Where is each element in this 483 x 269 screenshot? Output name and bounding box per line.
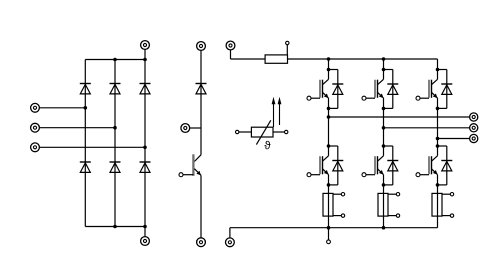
wire emitter diagonal+arrow of Q4 xyxy=(378,169,384,175)
terminal rectifier DC- xyxy=(141,237,150,246)
node junction top of Q1 xyxy=(327,68,331,72)
wire gate lead of Q6 xyxy=(420,174,429,176)
wire thermistor right lead xyxy=(273,131,285,133)
wire kelvin tap lower R3 xyxy=(442,215,450,217)
wire phase U output xyxy=(329,116,470,118)
wire diode-branch vertical of D12 xyxy=(337,146,339,185)
wire diode-branch vertical of D16 xyxy=(446,146,448,185)
wire rail corner drop col3 xyxy=(437,59,439,70)
wire DC+ to resistor xyxy=(231,58,266,60)
wire collector diagonal of Q1 xyxy=(323,79,329,84)
node junction top of Q6 xyxy=(436,144,440,148)
wire diode-branch top of D15 xyxy=(438,69,447,71)
node junction bottom rail leg2 xyxy=(113,225,117,229)
terminal rectifier DC+ xyxy=(141,41,150,50)
wire rectifier leg 3 xyxy=(144,60,146,227)
wire kelvin tap lower R2 xyxy=(388,215,396,217)
node junction phase V tap xyxy=(382,126,386,130)
wire col3 mid link xyxy=(437,108,439,146)
wire kelvin tap upper R3 xyxy=(442,193,450,195)
wire collector diagonal of Q6 xyxy=(432,156,438,161)
wire emitter lead of Q6 xyxy=(437,175,439,185)
wire emitter diagonal+arrow of Q2 xyxy=(323,169,329,175)
terminal AC input 1 xyxy=(31,103,40,112)
diode D7 chopper xyxy=(196,84,207,94)
wire DC- sense stub xyxy=(328,228,330,240)
wire collector diagonal of Q4 xyxy=(378,156,384,161)
wire chopper mid tap xyxy=(190,127,201,129)
wire AC input phase 1 xyxy=(39,107,85,109)
pin gate terminal of Q4 xyxy=(362,173,366,177)
wire gate lead of Q4 xyxy=(366,174,375,176)
node junction DC- col1 xyxy=(327,226,331,230)
wire DC+ riser xyxy=(230,50,232,59)
wire AC input phase 3 xyxy=(39,146,145,148)
wire chopper upper branch xyxy=(200,50,202,154)
pin gate terminal of Q5 xyxy=(416,96,420,100)
diode D15 (antiparallel) xyxy=(441,84,452,94)
wire emitter diagonal+arrow of Q1 xyxy=(323,92,329,98)
node junction phase1-leg1 xyxy=(84,106,88,110)
wire emitter diagonal+arrow of Q7 xyxy=(194,169,201,176)
wire emitter diagonal+arrow of Q3 xyxy=(378,92,384,98)
wire emitter diagonal+arrow of Q5 xyxy=(432,92,438,98)
node junction bottom of Q6 xyxy=(436,183,440,187)
diode D13 (antiparallel) xyxy=(387,84,398,94)
thermistor RT1 diagonal stroke xyxy=(256,120,270,144)
diode D11 (antiparallel) xyxy=(332,84,343,94)
terminal chopper emitter bottom xyxy=(197,238,206,247)
terminal phase U xyxy=(470,113,478,121)
wire kelvin tap lower R1 xyxy=(333,215,341,217)
pin gate terminal of Q7 xyxy=(179,173,183,177)
pin gate terminal of Q3 xyxy=(362,96,366,100)
wire diode-branch bottom of D16 xyxy=(438,184,447,186)
diode D14 (antiparallel) xyxy=(387,161,398,171)
wire diode-branch top of D13 xyxy=(384,69,393,71)
wire gate lead of Q7 xyxy=(183,174,193,176)
wire phase V output xyxy=(384,127,470,129)
wire emitter-to-shunt R1 xyxy=(328,185,330,228)
node junction phase3-leg3 xyxy=(143,146,147,150)
wire gate lead of Q2 xyxy=(311,174,320,176)
wire emitter lead of Q1 xyxy=(328,98,330,108)
wire collector diagonal of Q5 xyxy=(432,79,438,84)
pin thermistor left xyxy=(236,130,239,133)
wire diode-branch vertical of D13 xyxy=(392,70,394,109)
wire emitter lead of Q2 xyxy=(328,175,330,185)
terminal phase W xyxy=(470,134,478,142)
node junction top of Q5 xyxy=(436,68,440,72)
pin DC- sense xyxy=(327,240,331,244)
wire DC- rail xyxy=(230,227,438,229)
diode D4 xyxy=(80,162,91,172)
resistor R1 shunt xyxy=(323,193,333,216)
wire collector diagonal of Q7 xyxy=(194,155,201,162)
node junction bottom of Q1 xyxy=(327,107,331,111)
wire emitter lead of Q4 xyxy=(383,175,385,185)
wire collector lead of Q2 xyxy=(328,146,330,156)
wire collector lead of Q5 xyxy=(437,70,439,80)
node junction DC+ rail col1 xyxy=(327,57,331,61)
wire emitter lead of Q5 xyxy=(437,98,439,108)
wire rectifier DC+ riser xyxy=(144,49,146,59)
wire through shunt R2 xyxy=(383,193,385,216)
wire diode-branch top of D14 xyxy=(384,145,393,147)
node junction phase U tap xyxy=(327,115,331,119)
pin kelvin upper R3 xyxy=(450,193,453,196)
wire thermistor left lead xyxy=(239,131,252,133)
wire rail drop col2 xyxy=(383,59,385,70)
wire gate lead of Q1 xyxy=(311,97,320,99)
wire emitter-to-shunt R3 xyxy=(437,185,439,228)
diode D3 xyxy=(110,84,121,94)
wire diode-branch top of D12 xyxy=(329,145,338,147)
wire diode-branch bottom of D14 xyxy=(384,184,393,186)
wire collector lead of Q3 xyxy=(383,70,385,80)
pin kelvin lower R1 xyxy=(341,214,344,217)
thermistor RT1 body xyxy=(251,127,273,137)
diode D2 xyxy=(140,162,151,172)
wire col1 mid link xyxy=(328,108,330,146)
wire DC- riser left xyxy=(229,228,231,238)
wire phase W output xyxy=(438,138,470,140)
node junction top of Q2 xyxy=(327,144,331,148)
node junction bottom of Q4 xyxy=(382,183,386,187)
thermistor arrow 1 xyxy=(272,97,276,127)
thermistor arrow 2 xyxy=(278,97,282,125)
node junction top of Q4 xyxy=(382,144,386,148)
pin gate terminal of Q2 xyxy=(307,173,311,177)
terminal chopper mid xyxy=(181,124,190,133)
wire rectifier leg 2 xyxy=(114,60,116,227)
wire through shunt R1 xyxy=(328,193,330,216)
wire diode-branch bottom of D11 xyxy=(329,107,338,109)
wire gate lead of Q5 xyxy=(420,97,429,99)
wire emitter diagonal+arrow of Q6 xyxy=(432,169,438,175)
wire rectifier DC- bottom rail xyxy=(85,226,145,228)
terminal AC input 2 xyxy=(31,123,40,132)
diode D16 (antiparallel) xyxy=(441,161,452,171)
pin kelvin lower R3 xyxy=(450,214,453,217)
pin gate terminal of Q1 xyxy=(307,96,311,100)
thermistor RT1 theta label xyxy=(264,141,270,149)
node junction bottom of Q5 xyxy=(436,107,440,111)
node junction DC- col2 xyxy=(382,226,386,230)
node junction bottom of Q2 xyxy=(327,183,331,187)
wire diode-branch top of D16 xyxy=(438,145,447,147)
wire diode-branch bottom of D15 xyxy=(438,107,447,109)
wire diode-branch top of D11 xyxy=(329,69,338,71)
pin kelvin upper R1 xyxy=(341,193,344,196)
wire rectifier leg 1 xyxy=(84,60,86,227)
wire chopper lower branch xyxy=(200,175,202,238)
node junction top rail leg2 xyxy=(113,58,117,62)
wire diode-branch vertical of D11 xyxy=(337,70,339,109)
terminal phase V xyxy=(470,124,478,132)
wire diode-branch bottom of D13 xyxy=(384,107,393,109)
transistor Q3 IGBT body/gate bars xyxy=(375,80,378,98)
node junction phase W tap xyxy=(436,137,440,141)
wire emitter lead of Q3 xyxy=(383,98,385,108)
wire resistor sense pin riser xyxy=(286,45,288,55)
wire rail drop col1 xyxy=(328,59,330,70)
terminal AC input 3 xyxy=(31,143,40,152)
terminal inverter DC- input xyxy=(226,238,235,247)
node junction DC+ rail col2 xyxy=(382,57,386,61)
wire collector diagonal of Q3 xyxy=(378,79,384,84)
wire rectifier DC+ top rail xyxy=(85,59,145,61)
wire diode-branch bottom of D12 xyxy=(329,184,338,186)
diode D12 (antiparallel) xyxy=(332,161,343,171)
transistor Q2 IGBT body/gate bars xyxy=(320,156,323,174)
resistor R3 shunt xyxy=(432,193,442,216)
transistor Q7 chopper IGBT bar xyxy=(192,154,194,176)
wire AC input phase 2 xyxy=(39,127,115,129)
diode D6 xyxy=(110,162,121,172)
node junction top rail leg3 xyxy=(143,58,147,62)
transistor Q4 IGBT body/gate bars xyxy=(375,156,378,174)
pin thermistor right xyxy=(285,130,288,133)
transistor Q5 IGBT body/gate bars xyxy=(429,80,432,98)
wire diode-branch vertical of D14 xyxy=(392,146,394,185)
diode D5 xyxy=(140,84,151,94)
terminal chopper collector top xyxy=(197,42,206,51)
wire collector lead of Q4 xyxy=(383,146,385,156)
diode D1 xyxy=(80,84,91,94)
transistor Q1 IGBT body/gate bars xyxy=(320,80,323,98)
wire diode-branch vertical of D15 xyxy=(446,70,448,109)
resistor R2 shunt xyxy=(378,193,388,216)
wire rectifier DC- drop xyxy=(144,227,146,237)
wire collector lead of Q1 xyxy=(328,70,330,80)
node junction top of Q3 xyxy=(382,68,386,72)
wire col2 mid link xyxy=(383,108,385,146)
wire gate lead of Q3 xyxy=(366,97,375,99)
wire through shunt R3 xyxy=(437,193,439,216)
wire emitter-to-shunt R2 xyxy=(383,185,385,228)
pin kelvin upper R2 xyxy=(396,193,399,196)
transistor Q6 IGBT body/gate bars xyxy=(429,156,432,174)
pin gate terminal of Q6 xyxy=(416,173,420,177)
resistor R4 series xyxy=(265,55,287,63)
wire kelvin tap upper R2 xyxy=(388,193,396,195)
node junction phase2-leg2 xyxy=(113,126,117,130)
pin resistor sense xyxy=(286,41,289,44)
terminal inverter DC+ input xyxy=(226,41,235,50)
node junction bottom rail leg3 xyxy=(143,225,147,229)
wire collector lead of Q6 xyxy=(437,146,439,156)
wire DC+ rail to inverter xyxy=(288,58,438,60)
wire collector diagonal of Q2 xyxy=(323,156,329,161)
node junction bottom of Q3 xyxy=(382,107,386,111)
wire kelvin tap upper R1 xyxy=(333,193,341,195)
pin kelvin lower R2 xyxy=(396,214,399,217)
